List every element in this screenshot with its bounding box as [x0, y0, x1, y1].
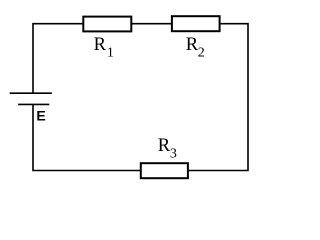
wire: between R1 right terminal and R2 left terminal [131, 23, 172, 25]
svg-text:1: 1 [107, 46, 114, 61]
svg-text:2: 2 [198, 46, 205, 61]
wire: battery negative plate down and along bottom to R3 left terminal [33, 104, 140, 170]
battery E positive plate (long) [10, 92, 52, 94]
svg-text:E: E [36, 108, 45, 124]
svg-text:R: R [94, 35, 107, 55]
resistor R3 body [141, 163, 188, 178]
svg-text:R: R [158, 136, 171, 156]
resistor R2 body [172, 16, 220, 31]
wire: R3 right terminal along bottom, up right side to R2 right terminal [189, 24, 248, 171]
svg-text:3: 3 [170, 147, 177, 162]
svg-text:R: R [186, 35, 199, 55]
battery E negative plate (short) [18, 103, 49, 105]
wire: top-left corner from R1 left terminal to battery positive plate [33, 24, 83, 93]
resistor R1 body [83, 17, 131, 32]
